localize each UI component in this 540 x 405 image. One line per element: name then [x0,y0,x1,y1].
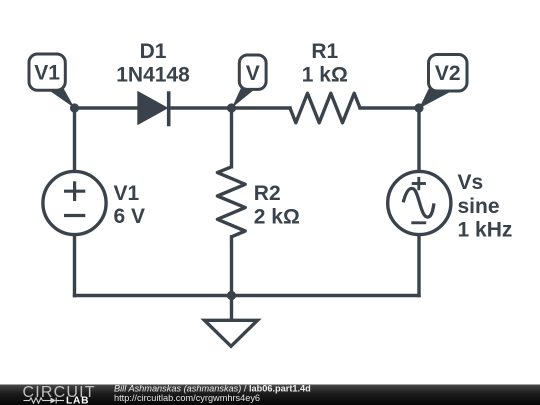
svg-text:LAB: LAB [66,396,89,405]
node flag V2 [419,55,467,109]
node flag V [232,55,266,108]
svg-text:http://circuitlab.com/cyrgwmhr: http://circuitlab.com/cyrgwmhrs4ey6 [114,393,260,403]
ground [205,320,258,346]
wire bottom node to ground [230,296,233,319]
CircuitLab logo mini schematic [24,398,65,404]
resistor R2 [217,167,245,237]
svg-text:sine: sine [458,195,500,218]
voltage source Vs (sine) [388,171,451,234]
svg-text:V: V [246,62,260,85]
wire node V to R1 left lead [232,106,291,109]
wire R2 bottom to bottom rail [230,237,233,296]
voltage source V1 [43,171,106,234]
wire top-left: node V1 to diode anode [75,106,138,109]
svg-text:R2: R2 [254,182,281,205]
svg-text:Vs: Vs [458,171,484,194]
wire V1 source bottom to bottom rail [73,235,76,296]
svg-text:1 kHz: 1 kHz [458,218,513,241]
wire node V down to R2 top [230,108,233,167]
svg-text:2 kΩ: 2 kΩ [254,205,300,228]
wire R1 right lead to node V2 [360,106,419,109]
resistor R1 [290,93,360,123]
svg-text:V1: V1 [34,62,60,85]
svg-text:Bill Ashmanskas (ashmanskas) /: Bill Ashmanskas (ashmanskas) / lab06.par… [114,384,311,394]
svg-text:V2: V2 [435,62,461,85]
svg-text:D1: D1 [140,40,167,63]
svg-text:6 V: 6 V [114,205,146,228]
node flag V1 [29,54,75,108]
svg-text:R1: R1 [311,40,338,63]
wire Vs source bottom to bottom rail [417,235,420,296]
node junction V1-net [70,103,79,112]
wire node V2 down to Vs source top [417,108,420,172]
footer bar [0,385,540,405]
svg-text:V1: V1 [114,182,140,205]
node junction V2-net [414,103,423,112]
wire bottom rail [75,294,420,297]
svg-text:1 kΩ: 1 kΩ [302,64,348,87]
node junction ground-net [227,291,236,300]
wire node V1 down to V1 source top [73,108,76,172]
svg-text:1N4148: 1N4148 [116,63,190,86]
diode D1 [137,91,168,127]
wire diode cathode to node V [169,106,232,109]
node junction V-net [227,103,236,112]
